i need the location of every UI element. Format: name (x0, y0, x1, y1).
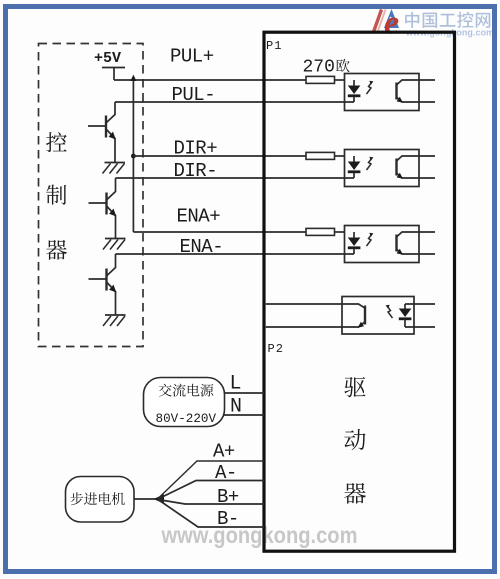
driver box P1/P2 (264, 32, 455, 551)
wire PUL+ (114, 79, 306, 81)
label 驱动器 (344, 377, 366, 504)
wire +5V rail vertical (130, 75, 136, 232)
label P2 (268, 342, 284, 356)
optocoupler U4 phototransistor (left) (266, 304, 365, 328)
+5V label (94, 50, 121, 67)
optocoupler U3 LED (348, 232, 361, 254)
svg-text:80V-220V: 80V-220V (156, 412, 217, 426)
optocoupler U2 light arrow (367, 157, 374, 170)
svg-text:P2: P2 (268, 342, 284, 356)
label A+ (213, 441, 235, 463)
optocoupler U1 box (345, 74, 420, 111)
svg-text:L: L (230, 373, 242, 396)
optocoupler U3 light arrow (367, 233, 374, 246)
svg-text:B+: B+ (217, 486, 239, 508)
svg-text:B-: B- (217, 508, 239, 530)
label DIR+ (174, 138, 218, 160)
wire N (223, 414, 264, 416)
optocoupler U1 LED (348, 80, 361, 102)
wire B+ (158, 500, 264, 505)
wire DIR+ (133, 155, 306, 157)
junction dot on rail at DIR+ (131, 154, 136, 159)
label L (230, 373, 242, 396)
optocoupler U4 LED (right) (399, 304, 412, 327)
wire A- (158, 481, 264, 500)
resistor R2 270 ohm (306, 152, 335, 159)
svg-text:DIR-: DIR- (174, 160, 218, 182)
svg-text:270: 270 (303, 58, 335, 78)
label A- (215, 462, 237, 484)
wire B- (158, 500, 264, 528)
optocoupler U1 light arrow (367, 81, 374, 94)
AC power source oval 交流电源 80V-220V (144, 378, 225, 427)
label B- (217, 508, 239, 530)
wire resistor R3 to optocoupler (335, 231, 346, 233)
wire L (224, 392, 264, 394)
transistor Q3 (89, 254, 117, 315)
ground for Q2 (103, 239, 126, 250)
svg-text:PUL-: PUL- (172, 84, 216, 106)
optocoupler U1 phototransistor (397, 80, 436, 103)
label 270欧 (resistor value) (303, 58, 350, 78)
wire DIR- (116, 177, 355, 179)
svg-text:N: N (230, 396, 242, 419)
stepper motor oval 步进电机 (66, 477, 135, 523)
logo gongkong top right (374, 5, 400, 42)
svg-text:ENA+: ENA+ (177, 206, 221, 228)
svg-text:P1: P1 (266, 39, 282, 53)
wire ENA- (116, 253, 355, 255)
svg-text:ENA-: ENA- (180, 236, 224, 258)
wire ENA+ (133, 231, 306, 233)
optocoupler U3 phototransistor (397, 232, 436, 255)
wire motor to fan point (134, 498, 158, 500)
transistor Q2 (89, 178, 117, 239)
optocoupler U2 phototransistor (397, 156, 436, 179)
logo text 中国工控网 (405, 12, 494, 38)
svg-text:e: e (384, 5, 399, 42)
optocoupler U2 LED (348, 156, 361, 178)
label ENA+ (177, 206, 221, 228)
wire resistor R2 to optocoupler (335, 155, 346, 157)
ground for Q3 (103, 315, 126, 326)
watermark gongkong bottom (161, 522, 358, 548)
label B+ (217, 486, 239, 508)
svg-text:+5V: +5V (94, 50, 121, 67)
transistor Q1 (88, 102, 116, 163)
label DIR- (174, 160, 218, 182)
optocoupler U4 box (mirrored) (342, 297, 414, 335)
svg-text:DIR+: DIR+ (174, 138, 218, 160)
svg-text:PUL+: PUL+ (170, 46, 214, 68)
label ENA- (180, 236, 224, 258)
label PUL+ (170, 46, 214, 68)
ground for Q1 (103, 163, 126, 174)
controller box (dashed) (39, 44, 144, 347)
svg-text:www.gongkong.com: www.gongkong.com (161, 522, 358, 548)
optocoupler U4 output wires (405, 304, 435, 327)
svg-text:A+: A+ (213, 441, 235, 463)
label P1 (266, 39, 282, 53)
label 控制器 (46, 132, 67, 260)
optocoupler U4 light arrow (mirrored) (386, 305, 393, 318)
wire resistor R1 to optocoupler (335, 79, 346, 81)
wire PUL- (115, 101, 354, 103)
svg-text:A-: A- (215, 462, 237, 484)
label N (230, 396, 242, 419)
wire A+ (158, 461, 264, 499)
fan point arrow (154, 494, 165, 503)
label PUL- (172, 84, 216, 106)
optocoupler U2 box (345, 150, 420, 187)
+5V supply bar (102, 68, 125, 81)
resistor R3 270 ohm (306, 228, 335, 235)
resistor R1 270 ohm (306, 76, 335, 83)
optocoupler U3 box (345, 226, 420, 263)
